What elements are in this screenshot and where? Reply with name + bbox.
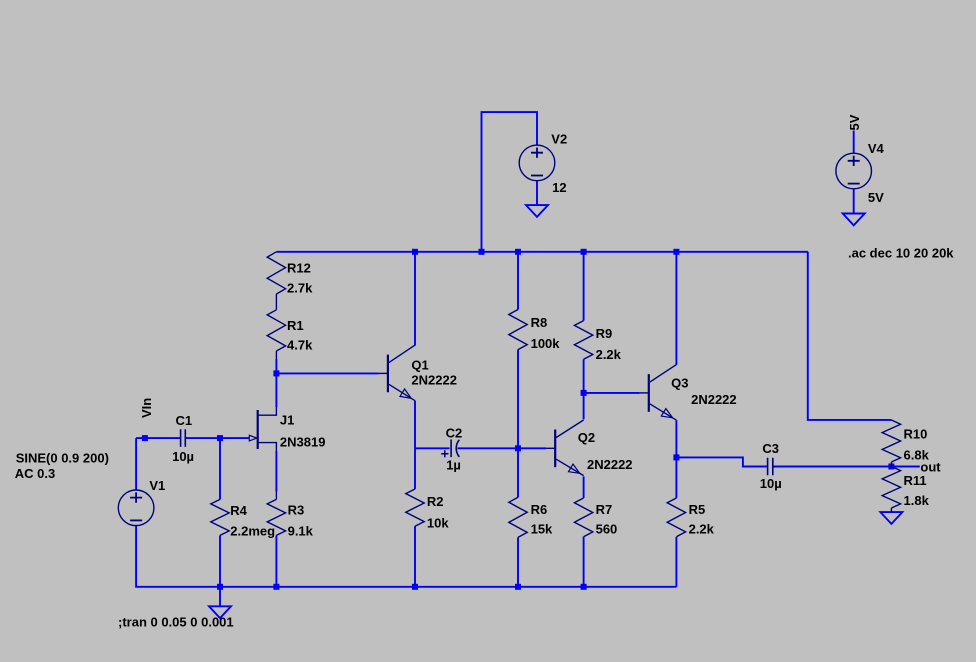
capacitor C1 plates [181,429,186,447]
svg-text:.ac dec 10 20 20k: .ac dec 10 20 20k [848,246,954,261]
transistor Q3 base lead [640,392,649,394]
svg-text:R11: R11 [904,473,927,488]
svg-text:VIn: VIn [139,398,154,418]
junction dot R6 bottom rail [515,584,521,590]
svg-text:R7: R7 [596,502,613,517]
transistor Q1 emitter stroke [389,384,415,400]
transistor Q3 (2N2222) body [648,374,650,412]
transistor Q2 (2N2222) body [554,430,556,468]
resistor R1 body [267,294,285,359]
wire out stub [891,466,919,468]
svg-text:5V: 5V [868,190,884,205]
wire node to Q1 base [276,372,379,374]
wire node to R5 top [675,457,677,498]
svg-text:Q3: Q3 [671,376,688,391]
wire node to Q2 collector [583,393,585,419]
wire node to R6 [517,448,519,497]
wire input row to C1 [136,437,180,439]
svg-text:V2: V2 [551,132,567,147]
resistor R10 body [882,420,900,467]
voltage source V1 circle [118,490,154,526]
voltage source V4 minus sign [848,183,860,185]
wire node to R4 top [219,438,221,499]
wire bottom rail [136,526,676,587]
junction dot Q3 emitter/R5/C3 [673,454,679,460]
capacitor C2 curved plate [456,440,459,457]
junction dot R3 bottom rail [273,584,279,590]
svg-text:V1: V1 [149,478,165,493]
junction dot R10/R11/out [888,464,894,470]
junction dot C1/R4/J1 [217,435,223,441]
transistor Q2 emitter arrow [569,464,580,473]
wire V2 top branch [482,112,538,252]
svg-text:out: out [920,459,941,474]
svg-text:2.2k: 2.2k [596,347,622,362]
capacitor C3 plates [768,458,773,476]
transistor Q2 collector stroke [556,420,583,438]
resistor R11 body [882,467,900,513]
voltage source V2 circle [519,145,555,181]
wire R7 bottom to rail [583,537,585,587]
svg-text:15k: 15k [531,521,553,536]
resistor R5 body [667,498,685,537]
ground under V2 [526,205,548,217]
junction dot C2/R8/R6/Q2 base [515,445,521,451]
wire node to R2 top [414,448,416,489]
wire R2 bottom to rail [414,526,416,587]
resistor R7 body [574,498,592,537]
wire R1 bottom node to J1 drain [275,359,277,407]
svg-text:R8: R8 [531,315,548,330]
resistor R9 body [574,321,592,360]
ground at bottom rail [209,606,231,618]
wire Q3 emitter down [675,420,677,457]
junction dot R9 on rail [581,249,587,255]
svg-text:R1: R1 [287,318,304,333]
wire Q3 emitter node to C3 [676,457,767,466]
svg-text:12: 12 [552,180,566,195]
transistor Q2 emitter stroke [556,459,583,475]
JFET J1 source lead [258,443,277,451]
ground under V4 [843,214,865,226]
svg-text:V4: V4 [868,141,885,156]
wire V2 to ground [536,181,538,205]
junction dot Q3 collector on rail [673,249,679,255]
wire VIn node to V1 top [135,438,137,490]
svg-text:R4: R4 [230,503,247,518]
svg-text:5V: 5V [847,114,862,130]
JFET J1 gate arrow [249,435,256,441]
svg-text:C2: C2 [446,426,463,441]
svg-text:R5: R5 [689,502,706,517]
wire C2 to Q2 base [458,447,547,449]
svg-text:4.7k: 4.7k [287,338,313,353]
wire node to Q3 base [584,392,640,394]
capacitor C2 flat plate [450,440,452,458]
voltage source V4 circle [836,153,872,189]
transistor Q3 collector stroke [650,365,677,383]
wire R8 bottom to C2 row [517,350,519,449]
voltage source V1 plus sign [130,492,142,502]
wire Q1 emitter down [414,401,416,449]
resistor R6 body [509,497,527,537]
svg-text:10µ: 10µ [172,449,194,464]
svg-text:R10: R10 [904,426,928,441]
transistor Q1 emitter arrow [400,389,411,398]
node VIn junction dot [142,435,148,441]
wire J1 source to R3 [275,451,277,492]
wire bottom rail up to R5 [675,537,677,587]
wire top supply rail [276,251,807,253]
capacitor C2 plus sign [441,450,448,457]
svg-text:1µ: 1µ [446,457,461,472]
svg-text:SINE(0 0.9 200): SINE(0 0.9 200) [16,450,109,465]
wire R9 bottom to node [583,359,585,393]
wire V4 to ground [853,189,855,214]
junction dot R7 bottom rail [581,584,587,590]
resistor R8 body [509,310,527,350]
wire rail to R8 [517,252,519,310]
svg-text:10k: 10k [427,516,449,531]
svg-text:Q2: Q2 [578,430,595,445]
wire R4 bottom to rail [219,535,221,586]
svg-text:2N2222: 2N2222 [587,457,633,472]
wire rail to R9 [583,252,585,321]
junction dot R2 bottom rail [412,584,418,590]
svg-text:9.1k: 9.1k [288,524,314,539]
resistor R4 body [211,499,229,535]
svg-text:C3: C3 [762,441,779,456]
svg-text:J1: J1 [280,413,294,428]
svg-text:Q1: Q1 [411,358,428,373]
voltage source V1 minus sign [130,519,142,521]
svg-text:C1: C1 [176,413,193,428]
ground under R11 [880,512,902,524]
svg-text:2N3819: 2N3819 [280,435,326,450]
wire R3 bottom to rail [275,535,277,586]
svg-text:100k: 100k [531,336,561,351]
voltage source V4 plus sign [848,156,860,166]
wire C3 to out node [774,466,892,468]
wire node to C2 [415,447,450,449]
svg-text:2.2k: 2.2k [689,521,715,536]
svg-text:;tran 0 0.05 0 0.001: ;tran 0 0.05 0 0.001 [118,615,234,630]
wire Q2 emitter to R7 [583,476,585,498]
transistor Q2 base lead [546,447,555,449]
svg-text:2.7k: 2.7k [287,280,313,295]
junction dot bottom rail ground [217,584,223,590]
JFET J1 (2N3819) channel bar [257,410,259,449]
voltage source V2 minus sign [531,175,543,177]
wire V4 top stub [853,131,855,154]
svg-text:2N2222: 2N2222 [691,392,737,407]
junction dot V2 branch on rail [479,249,485,255]
wire right rail to R10 [808,252,892,420]
svg-text:R9: R9 [596,326,613,341]
svg-text:2.2meg: 2.2meg [230,523,275,538]
svg-text:560: 560 [596,521,618,536]
wire Q3 collector to rail [675,252,677,365]
resistor R3 body [267,492,285,536]
resistor R12 body [267,252,285,294]
wire C1 to J1 gate [186,437,249,439]
svg-text:2N2222: 2N2222 [411,372,457,387]
svg-text:R6: R6 [531,502,548,517]
svg-text:R12: R12 [287,260,311,275]
svg-text:10µ: 10µ [760,476,782,491]
transistor Q1 base lead [379,372,388,374]
JFET J1 drain lead [258,407,277,415]
wire Q1 collector to rail [414,252,416,346]
transistor Q3 emitter arrow [661,409,672,418]
transistor Q1 collector stroke [389,345,415,363]
transistor Q1 (2N2222) body [387,355,389,393]
svg-text:AC 0.3: AC 0.3 [15,466,55,481]
svg-text:1.8k: 1.8k [904,493,930,508]
svg-text:R2: R2 [427,494,444,509]
voltage source V2 plus sign [531,148,543,158]
svg-text:R3: R3 [288,503,305,518]
junction dot R1/J1 drain/Q1 base [273,370,279,376]
junction dot Q1 collector on rail [412,249,418,255]
junction dot R8 on rail [515,249,521,255]
wire bottom rail ground stub [219,587,221,607]
junction dot R9/Q2 collector/Q3 base [581,390,587,396]
wire R6 bottom to rail [517,537,519,586]
transistor Q3 emitter stroke [650,404,677,420]
resistor R2 body [406,489,424,526]
